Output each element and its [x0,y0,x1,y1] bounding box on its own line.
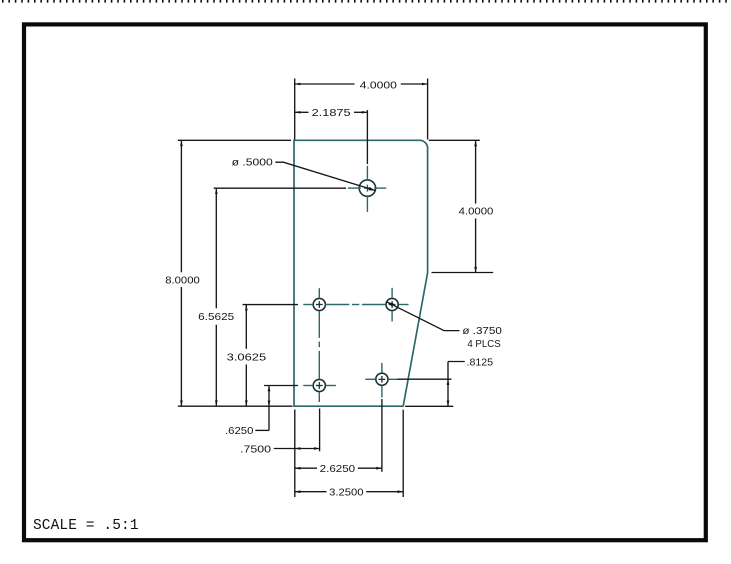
hole H4 center lines [365,363,398,398]
svg-text:2.6250: 2.6250 [320,464,356,475]
hole H1 center cross [316,301,323,308]
hole H2 center cross [389,301,396,308]
hole H2 center lines [392,288,409,322]
hole H2 circle [386,298,398,310]
center line H1-H3 [318,311,320,379]
dim 6.5625 [198,188,346,406]
hole H4 circle [376,373,388,385]
dim 2.6250 [295,399,382,475]
hole H4 center cross [379,376,386,383]
hole H1 circle [313,298,325,310]
leader dia .5000 [232,158,376,191]
svg-text:.7500: .7500 [240,444,271,455]
svg-text:.8125: .8125 [467,357,494,368]
svg-text:6.5625: 6.5625 [198,312,234,323]
svg-text:4 PLCS: 4 PLCS [467,339,500,350]
dim 3.2500 [295,410,403,499]
svg-text:3.0625: 3.0625 [227,353,267,364]
dim 2.1875 [295,108,368,164]
dim 3.0625 [227,305,298,406]
leader dia .3750 4 PLCS [387,302,502,350]
svg-text:4.0000: 4.0000 [459,207,494,218]
part outline [294,140,428,406]
scale note text [33,518,139,534]
hole H3 center cross [316,382,323,389]
svg-text:ø .5000: ø .5000 [232,158,273,169]
svg-text:.6250: .6250 [225,426,254,437]
svg-text:ø .3750: ø .3750 [462,326,502,337]
hole H3 circle [313,379,325,391]
dim .8125 [398,357,494,406]
center line H1-H2 [325,304,386,306]
svg-text:3.2500: 3.2500 [329,488,364,499]
dim 4.0000 right [429,140,494,272]
svg-text:2.1875: 2.1875 [312,108,351,119]
hole H3 center lines [303,386,336,403]
svg-text:4.0000: 4.0000 [360,80,397,91]
dim .6250 [225,386,298,438]
hole C1 center mark [348,166,386,212]
perforation dotted line [2,0,727,3]
dim 8.0000 [165,140,292,406]
hole C1 circle [359,180,375,196]
dim 4.0000 top [295,79,428,140]
hole H1 center lines [303,288,319,304]
svg-text:8.0000: 8.0000 [165,275,200,286]
svg-text:SCALE = .5:1: SCALE = .5:1 [33,518,139,534]
dim .7500 [240,409,320,498]
